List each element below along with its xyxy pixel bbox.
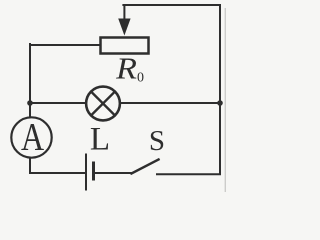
svg-text:R: R: [115, 52, 137, 86]
svg-text:0: 0: [137, 71, 144, 86]
svg-text:L: L: [90, 122, 110, 158]
svg-text:S: S: [149, 125, 165, 157]
svg-text:A: A: [21, 115, 44, 159]
